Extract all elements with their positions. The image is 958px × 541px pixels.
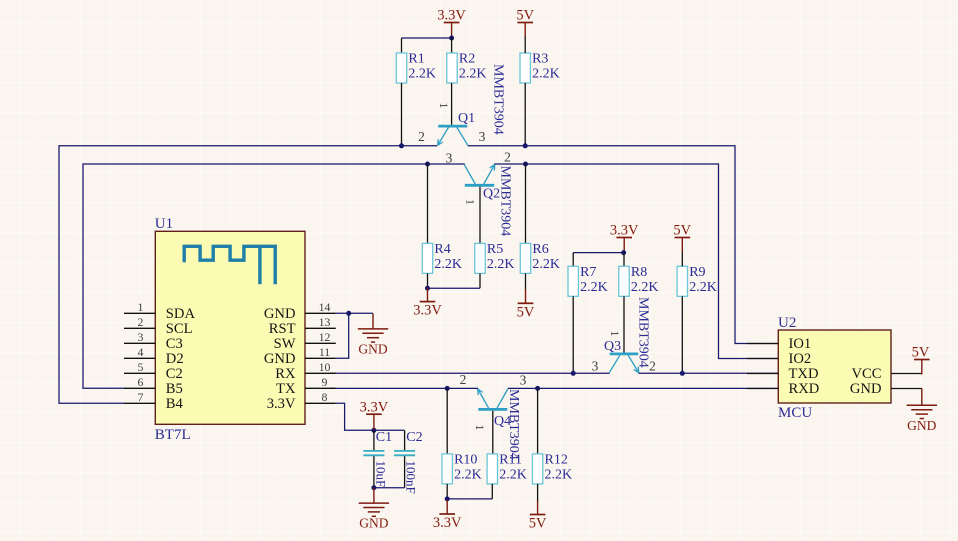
svg-text:2.2K: 2.2K [499,468,527,483]
svg-text:5V: 5V [529,516,547,532]
svg-text:3.3V: 3.3V [360,399,389,415]
svg-text:8: 8 [322,390,328,404]
svg-text:MMBT3904: MMBT3904 [491,64,506,135]
svg-text:11: 11 [319,345,330,359]
svg-text:2.2K: 2.2K [459,67,487,82]
svg-text:2.2K: 2.2K [454,468,482,483]
svg-text:R12: R12 [545,453,568,468]
svg-text:3.3V: 3.3V [267,396,296,412]
svg-text:7: 7 [138,390,144,404]
svg-text:R3: R3 [532,52,548,67]
svg-text:2.2K: 2.2K [689,280,717,295]
svg-text:2.2K: 2.2K [631,280,659,295]
svg-text:6: 6 [138,375,144,389]
svg-text:1: 1 [608,331,622,337]
svg-text:MMBT3904: MMBT3904 [506,389,521,460]
svg-text:1: 1 [464,199,478,205]
svg-text:U1: U1 [155,216,173,232]
svg-text:2.2K: 2.2K [408,67,436,82]
svg-text:3: 3 [138,330,144,344]
svg-text:RST: RST [269,321,296,337]
svg-text:5V: 5V [912,345,930,361]
svg-text:5V: 5V [517,304,535,320]
svg-text:GND: GND [264,306,296,322]
svg-text:R7: R7 [580,265,596,280]
svg-text:SCL: SCL [166,321,193,337]
svg-text:GND: GND [850,381,882,397]
svg-text:RX: RX [275,366,296,382]
svg-text:IO2: IO2 [789,351,812,367]
svg-text:R4: R4 [434,242,450,257]
svg-text:2.2K: 2.2K [532,67,560,82]
svg-text:3: 3 [479,129,486,144]
svg-text:2.2K: 2.2K [487,257,515,272]
svg-text:RXD: RXD [789,381,820,397]
svg-text:3.3V: 3.3V [610,223,639,239]
svg-text:100nF: 100nF [404,461,419,494]
svg-text:2: 2 [504,150,511,165]
svg-text:Q1: Q1 [458,111,475,126]
svg-text:3.3V: 3.3V [413,303,442,319]
svg-text:5V: 5V [673,223,691,239]
svg-text:SDA: SDA [166,306,196,322]
svg-text:R11: R11 [499,453,522,468]
svg-text:MMBT3904: MMBT3904 [498,166,513,237]
svg-text:B5: B5 [166,381,183,397]
svg-text:9: 9 [322,375,328,389]
svg-text:14: 14 [319,300,331,314]
svg-text:3.3V: 3.3V [437,8,466,24]
svg-text:13: 13 [319,315,331,329]
svg-text:2.2K: 2.2K [532,257,560,272]
svg-text:MCU: MCU [778,405,812,421]
svg-text:C1: C1 [376,430,392,445]
svg-text:12: 12 [319,330,331,344]
svg-text:R6: R6 [532,242,548,257]
svg-text:2.2K: 2.2K [580,280,608,295]
svg-text:C3: C3 [166,336,183,352]
svg-text:10: 10 [319,360,331,374]
svg-text:2.2K: 2.2K [545,468,573,483]
svg-text:GND: GND [907,418,936,433]
svg-text:R10: R10 [454,453,477,468]
svg-text:3: 3 [520,373,527,388]
svg-text:C2: C2 [166,366,183,382]
svg-text:2: 2 [138,315,144,329]
svg-text:TXD: TXD [789,366,819,382]
svg-text:GND: GND [359,516,388,531]
svg-text:1: 1 [437,103,451,109]
svg-text:2: 2 [418,129,425,144]
svg-text:R2: R2 [459,52,475,67]
svg-text:B4: B4 [166,396,184,412]
svg-text:BT7L: BT7L [155,427,191,443]
svg-text:SW: SW [274,336,296,352]
svg-text:Q3: Q3 [604,339,621,354]
svg-text:10uF: 10uF [374,461,389,488]
svg-text:3: 3 [446,150,453,165]
svg-text:VCC: VCC [851,366,881,382]
svg-text:R9: R9 [689,265,705,280]
svg-text:R5: R5 [487,242,503,257]
svg-text:U2: U2 [778,315,796,331]
svg-text:2.2K: 2.2K [434,257,462,272]
svg-text:1: 1 [138,300,144,314]
svg-text:R8: R8 [631,265,647,280]
svg-text:TX: TX [276,381,296,397]
svg-text:R1: R1 [408,52,424,67]
svg-text:2: 2 [460,372,467,387]
svg-text:3: 3 [592,359,599,374]
svg-text:3.3V: 3.3V [433,515,462,531]
svg-text:5: 5 [138,360,144,374]
svg-text:4: 4 [138,345,144,359]
svg-text:MMBT3904: MMBT3904 [636,297,651,368]
svg-text:1: 1 [473,425,487,431]
svg-text:GND: GND [264,351,296,367]
svg-text:D2: D2 [166,351,184,367]
svg-text:IO1: IO1 [789,336,812,352]
svg-text:GND: GND [358,342,387,357]
svg-text:5V: 5V [516,8,534,24]
svg-text:C2: C2 [406,430,422,445]
